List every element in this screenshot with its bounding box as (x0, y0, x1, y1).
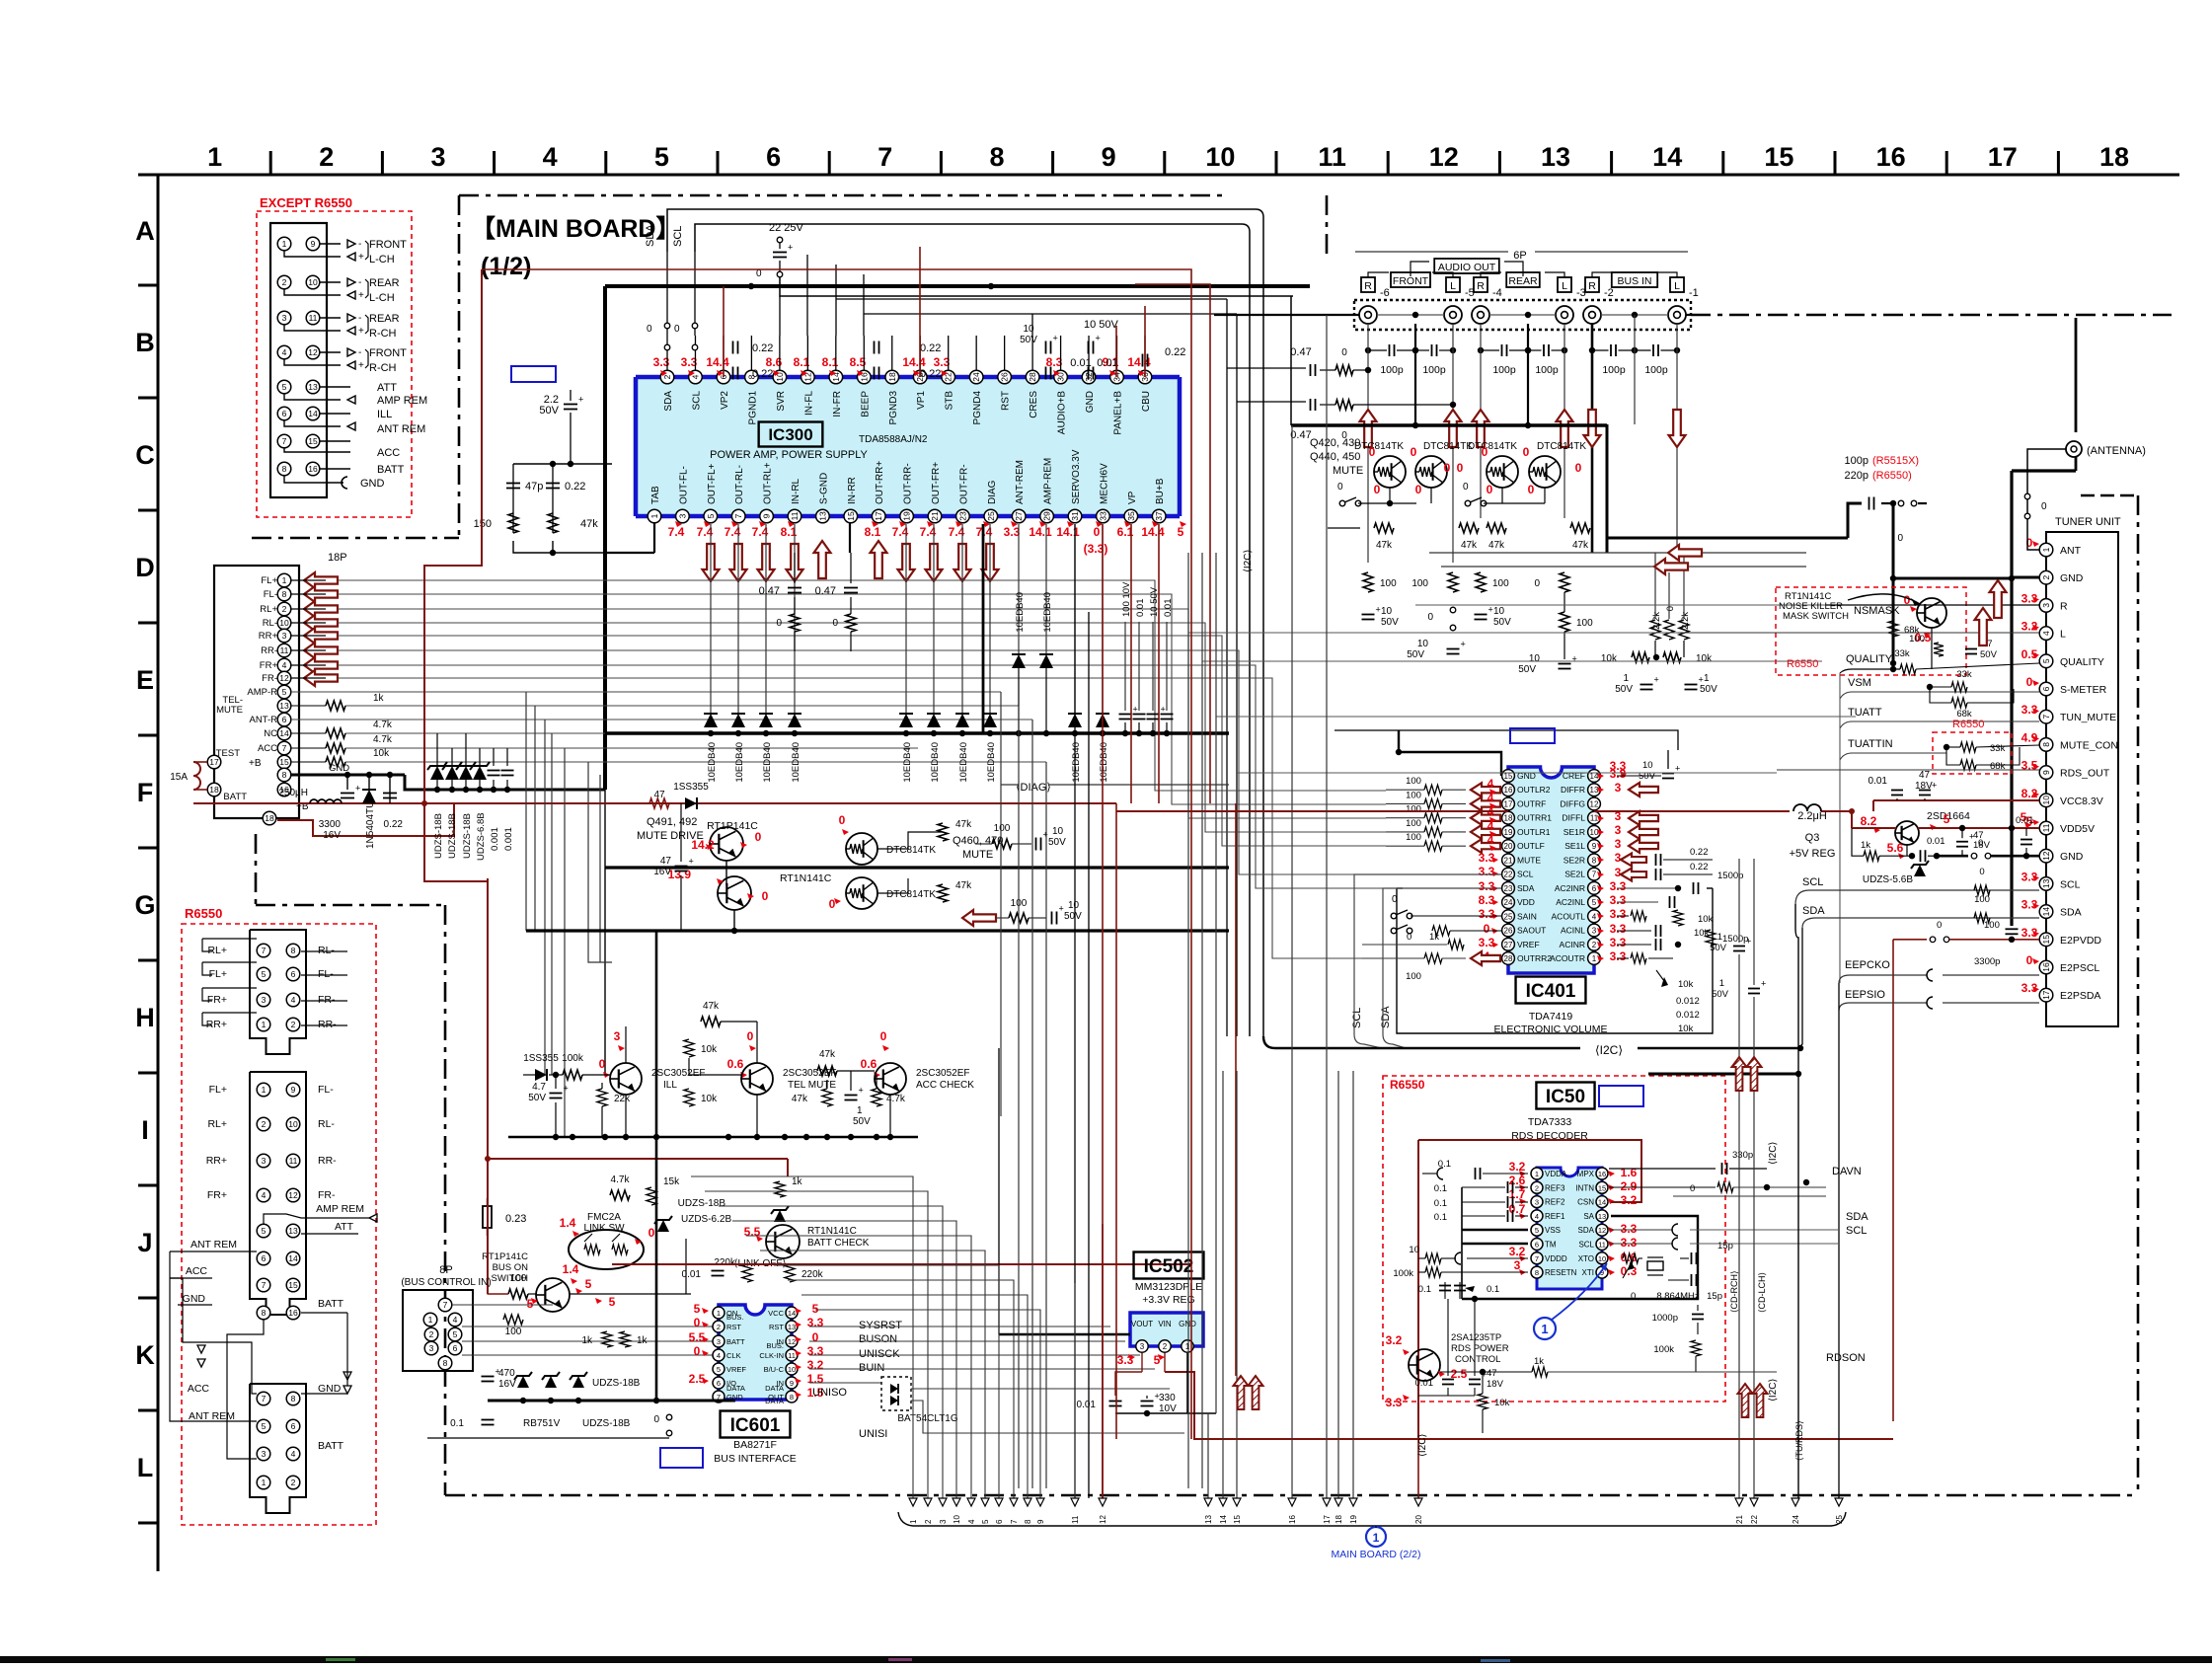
svg-text:0.1: 0.1 (1434, 1183, 1447, 1194)
svg-text:14: 14 (1652, 142, 1682, 172)
svg-text:BUS.: BUS. (766, 1341, 784, 1350)
svg-text:ANT REM: ANT REM (191, 1239, 237, 1251)
svg-text:50V: 50V (1048, 837, 1066, 848)
svg-text:8P: 8P (439, 1264, 452, 1276)
svg-text:1: 1 (262, 1085, 267, 1095)
svg-text:10: 10 (1381, 606, 1393, 617)
svg-text:ACC CHECK: ACC CHECK (916, 1080, 974, 1091)
svg-text:1: 1 (207, 142, 222, 172)
svg-text:13: 13 (2041, 878, 2051, 888)
svg-text:100p: 100p (1602, 364, 1626, 376)
svg-text:SDA: SDA (1517, 883, 1535, 893)
svg-text:47k: 47k (703, 1001, 720, 1012)
svg-text:8: 8 (1024, 1519, 1032, 1524)
svg-text:IN-FR: IN-FR (832, 391, 843, 417)
svg-text:IC300: IC300 (768, 425, 812, 444)
svg-text:CLK: CLK (726, 1351, 741, 1360)
svg-text:24: 24 (1504, 898, 1513, 907)
svg-text:REAR: REAR (369, 277, 400, 289)
svg-text:5: 5 (694, 1302, 701, 1316)
svg-text:G: G (134, 890, 155, 920)
svg-text:8: 8 (282, 464, 287, 474)
svg-text:VDDD: VDDD (1545, 1254, 1567, 1263)
svg-text:SCL: SCL (1351, 1008, 1363, 1028)
svg-text:1000p: 1000p (1652, 1313, 1678, 1324)
svg-text:RL+: RL+ (207, 945, 227, 956)
svg-text:0.01: 0.01 (2016, 815, 2034, 826)
svg-text:11: 11 (788, 1351, 796, 1360)
svg-text:11: 11 (790, 511, 800, 520)
svg-text:0: 0 (1528, 483, 1535, 496)
svg-text:50V: 50V (528, 1093, 546, 1103)
svg-text:15: 15 (1764, 142, 1793, 172)
svg-text:1k: 1k (1429, 932, 1439, 943)
svg-text:DTC814TK: DTC814TK (1468, 441, 1517, 452)
svg-text:(1/2): (1/2) (481, 253, 531, 280)
svg-text:1: 1 (1704, 673, 1710, 684)
svg-text:10EDB40: 10EDB40 (707, 742, 718, 783)
svg-text:VDD5V: VDD5V (2060, 823, 2095, 835)
svg-text:0.01: 0.01 (1135, 599, 1146, 618)
svg-text:4: 4 (1535, 1212, 1539, 1221)
svg-text:3.3: 3.3 (1610, 922, 1627, 936)
svg-text:10EDB40: 10EDB40 (762, 742, 773, 783)
svg-text:RST: RST (769, 1323, 784, 1331)
svg-text:220k: 220k (801, 1269, 824, 1280)
svg-text:50V: 50V (1020, 335, 1037, 345)
svg-text:E2PSDA: E2PSDA (2060, 990, 2100, 1002)
svg-text:OUT-RL+: OUT-RL+ (763, 462, 774, 504)
svg-text:3.3: 3.3 (1610, 893, 1627, 907)
svg-text:7.4: 7.4 (668, 525, 685, 539)
svg-text:0: 0 (1463, 482, 1469, 493)
svg-text:RT1P141C: RT1P141C (482, 1251, 528, 1262)
svg-text:SDA: SDA (663, 391, 674, 412)
svg-text:8: 8 (1535, 1268, 1539, 1277)
svg-text:0: 0 (1631, 1291, 1636, 1302)
svg-text:-6: -6 (1380, 287, 1390, 299)
svg-text:3: 3 (1140, 1342, 1145, 1351)
svg-text:SCL: SCL (1802, 876, 1823, 888)
svg-text:100p: 100p (1492, 364, 1516, 376)
svg-text:33: 33 (1098, 511, 1107, 521)
svg-text:47k: 47k (792, 1094, 808, 1104)
svg-text:IN-RL: IN-RL (791, 478, 801, 504)
svg-text:9: 9 (311, 239, 316, 249)
svg-text:14: 14 (279, 728, 289, 738)
svg-text:2: 2 (282, 604, 287, 614)
svg-text:6: 6 (453, 1343, 458, 1353)
svg-text:MUTE DRIVE: MUTE DRIVE (637, 830, 704, 842)
svg-text:2: 2 (662, 374, 672, 379)
svg-text:SDA: SDA (1802, 905, 1825, 917)
svg-text:PANEL+B: PANEL+B (1113, 391, 1124, 435)
svg-text:L: L (1674, 280, 1680, 292)
svg-text:15p: 15p (1717, 1241, 1733, 1251)
svg-text:3: 3 (429, 1343, 434, 1353)
svg-text:35: 35 (1126, 511, 1136, 521)
svg-text:7: 7 (282, 436, 287, 446)
svg-text:1: 1 (282, 575, 287, 585)
svg-text:2: 2 (429, 1329, 434, 1339)
svg-text:OUT-RL-: OUT-RL- (734, 465, 745, 504)
svg-text:22: 22 (1504, 871, 1513, 879)
svg-text:21: 21 (930, 511, 940, 521)
svg-text:5: 5 (1178, 525, 1184, 539)
svg-text:0.22: 0.22 (384, 819, 404, 830)
svg-text:0: 0 (755, 830, 762, 844)
svg-text:29: 29 (1042, 511, 1052, 521)
svg-text:0: 0 (1897, 533, 1903, 544)
svg-text:QUALITY: QUALITY (2060, 656, 2104, 668)
svg-text:100: 100 (1406, 776, 1421, 787)
svg-text:TM: TM (1545, 1241, 1557, 1250)
svg-text:10EDB40: 10EDB40 (1015, 592, 1026, 633)
svg-text:1.6: 1.6 (1621, 1166, 1638, 1179)
svg-text:2: 2 (717, 1323, 721, 1331)
svg-text:ACC: ACC (377, 447, 400, 459)
svg-text:12: 12 (288, 1190, 298, 1200)
svg-text:2SC3052EF: 2SC3052EF (651, 1068, 705, 1079)
svg-text:NC: NC (264, 728, 277, 739)
svg-text:7: 7 (877, 142, 892, 172)
svg-text:15p: 15p (1707, 1291, 1722, 1302)
svg-text:100p: 100p (1644, 364, 1668, 376)
svg-text:9: 9 (1592, 842, 1597, 851)
svg-text:4: 4 (967, 1519, 976, 1524)
svg-text:21: 21 (1504, 856, 1513, 865)
svg-text:0.6: 0.6 (727, 1057, 744, 1071)
svg-text:2SC3052EF: 2SC3052EF (916, 1068, 969, 1079)
svg-text:14: 14 (288, 1253, 298, 1263)
svg-text:0: 0 (647, 324, 652, 335)
svg-text:1: 1 (282, 239, 287, 249)
svg-text:6: 6 (766, 142, 781, 172)
svg-text:3: 3 (1535, 1198, 1539, 1207)
svg-text:50V: 50V (1615, 684, 1633, 695)
svg-text:DATA: DATA (726, 1384, 745, 1393)
svg-text:23: 23 (957, 511, 967, 521)
svg-text:GND: GND (2060, 572, 2084, 584)
svg-text:100p: 100p (1535, 364, 1559, 376)
svg-text:10EDB40: 10EDB40 (1071, 742, 1082, 783)
svg-text:13: 13 (817, 511, 827, 521)
svg-text:3300: 3300 (319, 819, 342, 830)
svg-text:0: 0 (1341, 347, 1347, 358)
svg-text:100k: 100k (1653, 1344, 1674, 1355)
svg-text:+: + (1376, 605, 1381, 615)
svg-text:10k: 10k (1698, 914, 1714, 925)
svg-text:16: 16 (1288, 1515, 1297, 1524)
svg-text:0.47: 0.47 (1290, 429, 1311, 441)
svg-text:CRES: CRES (1029, 391, 1039, 418)
svg-text:SCL: SCL (2060, 878, 2081, 890)
svg-text:RB751V: RB751V (523, 1418, 561, 1429)
svg-text:9: 9 (1036, 1519, 1045, 1524)
svg-text:VOUT: VOUT (1131, 1320, 1153, 1328)
svg-text:STB: STB (945, 391, 955, 411)
svg-text:0.47: 0.47 (1290, 346, 1311, 358)
svg-text:100: 100 (1406, 818, 1421, 829)
svg-text:0: 0 (839, 813, 846, 827)
svg-text:CONTROL: CONTROL (1455, 1354, 1500, 1365)
svg-text:R: R (1588, 280, 1596, 292)
svg-text:BUIN: BUIN (859, 1362, 884, 1374)
svg-text:BEEP: BEEP (860, 391, 871, 417)
svg-text:100: 100 (1909, 634, 1925, 644)
svg-text:4: 4 (2041, 631, 2051, 636)
svg-text:BATT: BATT (318, 1440, 344, 1452)
svg-text:R6550: R6550 (1952, 719, 1984, 730)
svg-text:50V: 50V (853, 1116, 871, 1127)
svg-text:R6550: R6550 (185, 906, 222, 921)
svg-text:6: 6 (995, 1519, 1004, 1524)
svg-text:14.4: 14.4 (1141, 525, 1165, 539)
svg-text:1: 1 (909, 1519, 918, 1524)
svg-text:4: 4 (1592, 912, 1597, 921)
svg-text:+: + (1488, 605, 1493, 615)
svg-text:9: 9 (2041, 770, 2051, 775)
svg-text:6: 6 (282, 715, 287, 724)
svg-text:4: 4 (282, 347, 287, 357)
svg-text:26: 26 (1504, 927, 1513, 936)
svg-text:10EDB40: 10EDB40 (986, 742, 997, 783)
svg-text:MAIN BOARD (2/2): MAIN BOARD (2/2) (1331, 1549, 1420, 1560)
svg-text:SDA: SDA (1846, 1211, 1869, 1223)
svg-text:7: 7 (2041, 715, 2051, 720)
svg-text:14.1: 14.1 (1029, 525, 1052, 539)
svg-text:2.5: 2.5 (1451, 1367, 1468, 1381)
svg-text:RDS_OUT: RDS_OUT (2060, 768, 2110, 780)
svg-text:330: 330 (1159, 1393, 1176, 1403)
svg-text:BUS.: BUS. (726, 1313, 744, 1322)
svg-text:0: 0 (1337, 482, 1343, 493)
svg-text:ACINL: ACINL (1561, 926, 1585, 936)
svg-text:16: 16 (1504, 786, 1513, 795)
svg-text:100: 100 (994, 823, 1011, 834)
svg-text:0.22: 0.22 (1690, 862, 1709, 872)
svg-text:50V: 50V (1493, 617, 1511, 628)
svg-text:1: 1 (1541, 1322, 1548, 1336)
svg-text:Q420, 430: Q420, 430 (1310, 437, 1360, 449)
svg-text:5: 5 (262, 1421, 267, 1431)
svg-text:L: L (1562, 280, 1567, 292)
svg-text:FL-: FL- (264, 589, 277, 600)
svg-text:+3.3V REG: +3.3V REG (1142, 1294, 1194, 1306)
svg-text:10: 10 (953, 1515, 961, 1524)
svg-text:OUTLR2: OUTLR2 (1517, 785, 1551, 795)
svg-text:OUTRR2: OUTRR2 (1517, 953, 1552, 963)
svg-text:3: 3 (677, 513, 687, 518)
svg-text:FR+: FR+ (207, 994, 227, 1006)
svg-text:RL-: RL- (263, 618, 277, 629)
svg-text:TAB: TAB (650, 486, 661, 504)
svg-text:2: 2 (924, 1519, 933, 1524)
svg-text:0: 0 (1392, 894, 1398, 905)
svg-text:+: + (689, 857, 694, 867)
svg-text:10: 10 (1417, 639, 1429, 649)
svg-text:IN-RR: IN-RR (847, 477, 858, 504)
svg-text:2.9: 2.9 (1621, 1179, 1638, 1193)
svg-text:12: 12 (308, 347, 318, 357)
svg-text:⟨I2C⟩: ⟨I2C⟩ (1768, 1142, 1779, 1165)
svg-text:MUTE_CON: MUTE_CON (2060, 739, 2118, 751)
svg-text:SAIN: SAIN (1517, 911, 1537, 921)
svg-text:0: 0 (1484, 922, 1490, 936)
svg-text:8: 8 (790, 1393, 794, 1402)
svg-text:1: 1 (717, 1309, 721, 1318)
svg-text:10: 10 (1052, 826, 1064, 837)
svg-text:3.3: 3.3 (807, 1316, 824, 1329)
svg-text:SCL: SCL (672, 226, 684, 247)
svg-text:Q3: Q3 (1805, 832, 1820, 844)
svg-text:17: 17 (1988, 142, 2018, 172)
svg-text:4: 4 (1487, 819, 1494, 833)
svg-text:100: 100 (1576, 618, 1593, 629)
svg-text:8: 8 (291, 1394, 296, 1403)
svg-text:10EDB40: 10EDB40 (902, 742, 913, 783)
svg-text:50V: 50V (539, 405, 559, 417)
svg-text:XTI: XTI (1582, 1268, 1594, 1277)
svg-text:16: 16 (1876, 142, 1906, 172)
svg-text:0: 0 (1487, 483, 1493, 496)
svg-text:AMP REM: AMP REM (316, 1203, 364, 1215)
svg-text:0: 0 (694, 1316, 701, 1329)
svg-text:0.012: 0.012 (1676, 996, 1700, 1007)
svg-text:3: 3 (2041, 603, 2051, 608)
svg-text:2: 2 (262, 1119, 267, 1129)
svg-text:0.22: 0.22 (752, 342, 773, 354)
svg-text:DATA: DATA (765, 1397, 784, 1405)
svg-text:10EDB40: 10EDB40 (930, 742, 941, 783)
svg-text:7: 7 (1592, 871, 1597, 879)
svg-text:7: 7 (1535, 1254, 1539, 1263)
svg-text:+: + (1572, 654, 1577, 664)
svg-text:1: 1 (1592, 954, 1597, 963)
svg-text:8: 8 (2041, 742, 2051, 747)
svg-text:ACC: ACC (188, 1383, 210, 1395)
svg-text:CLK-IN: CLK-IN (759, 1351, 784, 1360)
svg-text:MECH6V: MECH6V (1099, 463, 1109, 504)
svg-text:L-CH: L-CH (369, 292, 395, 304)
svg-text:0.01: 0.01 (1869, 776, 1888, 787)
svg-text:5.6: 5.6 (1887, 841, 1904, 855)
svg-text:2: 2 (1163, 1342, 1168, 1351)
svg-text:UDZS-18B: UDZS-18B (678, 1198, 726, 1209)
svg-text:18: 18 (1504, 814, 1513, 823)
svg-text:E2PVDD: E2PVDD (2060, 935, 2101, 947)
svg-text:0.1: 0.1 (1434, 1212, 1447, 1223)
svg-text:AC2INR: AC2INR (1555, 883, 1585, 893)
svg-text:EEPCKO: EEPCKO (1845, 959, 1890, 971)
svg-text:FRONT: FRONT (369, 347, 407, 359)
svg-text:(ANTENNA): (ANTENNA) (2087, 445, 2146, 457)
svg-text:100: 100 (1406, 971, 1421, 982)
svg-text:ANT REM: ANT REM (189, 1410, 235, 1422)
svg-text:50V: 50V (1407, 649, 1424, 660)
svg-text:4: 4 (1487, 791, 1494, 804)
svg-text:6: 6 (1592, 884, 1597, 893)
svg-text:33k: 33k (1894, 648, 1910, 659)
svg-text:BA8271F: BA8271F (733, 1439, 777, 1451)
svg-text:10: 10 (2041, 796, 2051, 805)
svg-text:10: 10 (1205, 142, 1235, 172)
svg-text:13: 13 (308, 382, 318, 392)
svg-text:SDA: SDA (2060, 907, 2082, 919)
svg-text:10k: 10k (1678, 1024, 1694, 1034)
svg-text:7: 7 (443, 1300, 448, 1310)
svg-text:+: + (1096, 334, 1101, 343)
svg-text:14: 14 (308, 409, 318, 418)
svg-text:13.9: 13.9 (668, 868, 692, 881)
svg-text:FRONT: FRONT (1393, 275, 1429, 287)
svg-text:0.01: 0.01 (1163, 599, 1174, 618)
svg-text:6: 6 (1535, 1241, 1539, 1250)
svg-text:100: 100 (510, 1273, 527, 1284)
svg-text:DATA: DATA (765, 1384, 784, 1393)
svg-text:Q440, 450: Q440, 450 (1310, 451, 1360, 463)
svg-text:47k: 47k (955, 819, 972, 830)
svg-text:+: + (1699, 675, 1704, 685)
svg-text:BUSON: BUSON (859, 1333, 897, 1345)
svg-text:FL-: FL- (318, 1084, 334, 1096)
svg-text:0.3: 0.3 (1621, 1264, 1638, 1278)
svg-text:SAOUT: SAOUT (1517, 926, 1546, 936)
svg-text:TUN_MUTE: TUN_MUTE (2060, 712, 2116, 723)
svg-text:SCL: SCL (1578, 1241, 1594, 1250)
svg-text:100p: 100p (1380, 364, 1404, 376)
svg-text:13: 13 (1541, 142, 1570, 172)
svg-text:VSM: VSM (1848, 677, 1871, 689)
svg-text:17: 17 (1504, 799, 1513, 808)
svg-text:BU+B: BU+B (1155, 478, 1166, 504)
svg-text:5: 5 (2041, 658, 2051, 663)
svg-text:1: 1 (262, 1020, 267, 1029)
svg-text:UDZS-6.8B: UDZS-6.8B (476, 812, 487, 861)
svg-text:1.7: 1.7 (1509, 1187, 1526, 1201)
svg-text:-: - (358, 347, 361, 358)
svg-text:DTC814TK: DTC814TK (1354, 441, 1404, 452)
svg-text:100k: 100k (1393, 1268, 1413, 1279)
svg-text:⟨CD-LCH⟩: ⟨CD-LCH⟩ (1757, 1272, 1767, 1313)
svg-text:0: 0 (648, 1226, 655, 1240)
svg-text:3.3: 3.3 (1610, 879, 1627, 893)
svg-text:S-GND: S-GND (818, 473, 829, 504)
svg-text:18V: 18V (1487, 1379, 1504, 1390)
svg-text:DIFFL: DIFFL (1562, 813, 1585, 823)
svg-text:25: 25 (986, 511, 996, 521)
svg-text:RR-: RR- (318, 1019, 337, 1030)
svg-text:3.3: 3.3 (1386, 1396, 1403, 1409)
svg-text:24: 24 (971, 372, 981, 382)
svg-text:100: 100 (1406, 804, 1421, 815)
svg-text:5: 5 (585, 1277, 592, 1291)
svg-text:UDZS-18B: UDZS-18B (462, 813, 473, 859)
svg-text:POWER AMP, POWER SUPPLY: POWER AMP, POWER SUPPLY (710, 449, 868, 461)
svg-text:10: 10 (1529, 653, 1541, 664)
svg-text:19: 19 (1504, 828, 1513, 837)
svg-text:3: 3 (282, 313, 287, 323)
svg-text:QUALITY: QUALITY (1846, 653, 1893, 665)
svg-text:RT1N141C: RT1N141C (807, 1226, 857, 1237)
svg-text:0: 0 (1407, 932, 1411, 943)
svg-text:11: 11 (1598, 1241, 1606, 1250)
svg-text:10: 10 (788, 1365, 796, 1374)
svg-text:47: 47 (660, 856, 672, 867)
svg-text:0: 0 (812, 1330, 819, 1344)
svg-text:DTC814TK: DTC814TK (886, 845, 936, 856)
svg-text:1.5: 1.5 (807, 1372, 824, 1386)
